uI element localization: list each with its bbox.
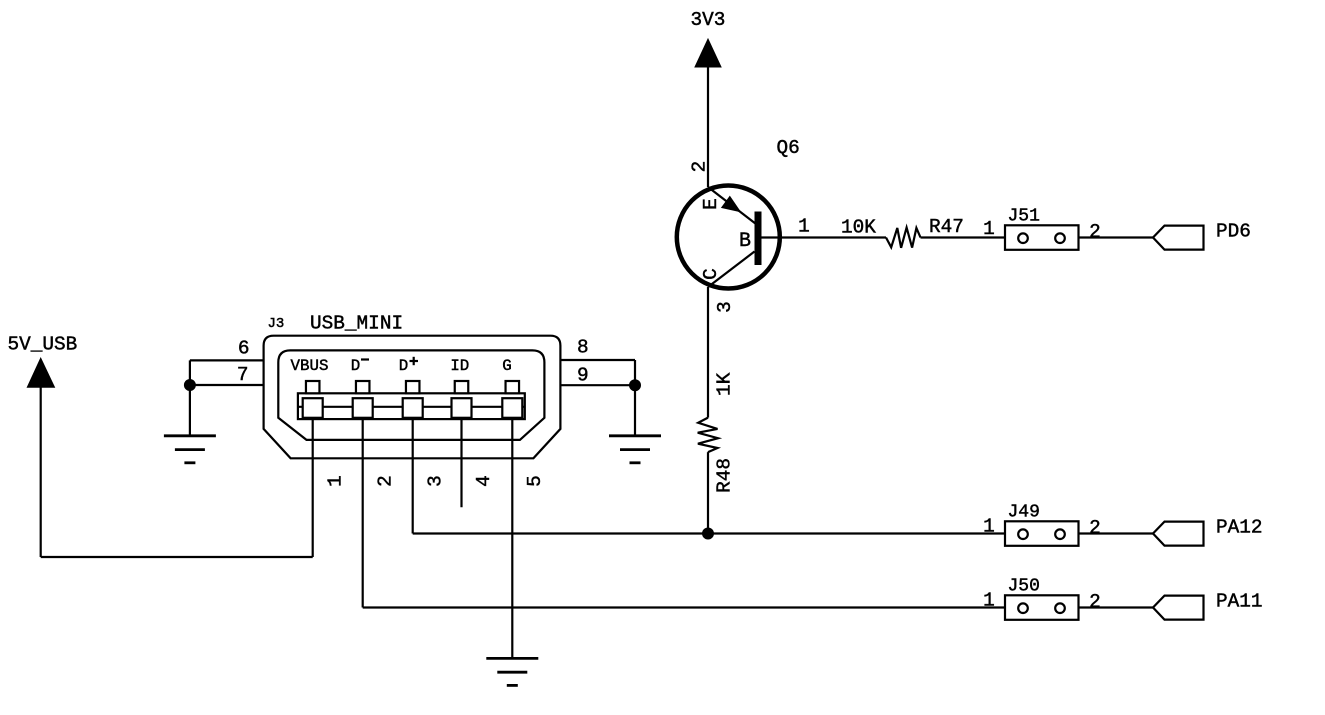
svg-text:5V_USB: 5V_USB [8,334,78,356]
svg-text:G: G [502,357,511,375]
svg-text:2: 2 [1089,591,1101,613]
svg-text:1: 1 [983,590,995,612]
svg-text:J50: J50 [1008,577,1040,597]
svg-text:3V3: 3V3 [691,9,726,31]
svg-text:D: D [351,357,360,375]
svg-text:E: E [700,198,722,210]
svg-text:B: B [739,230,751,253]
svg-text:3: 3 [714,301,736,313]
svg-text:Q6: Q6 [777,137,800,159]
svg-text:D: D [399,357,408,375]
svg-text:1: 1 [798,216,810,238]
svg-text:6: 6 [238,338,250,360]
svg-text:C: C [700,268,722,280]
svg-text:2: 2 [689,161,711,173]
svg-text:1: 1 [983,218,995,240]
svg-text:J51: J51 [1008,207,1040,227]
svg-text:J3: J3 [268,316,285,332]
svg-text:PD6: PD6 [1216,220,1251,242]
svg-text:1: 1 [324,475,346,487]
svg-text:1K: 1K [714,372,736,396]
svg-text:10K: 10K [841,217,876,239]
svg-text:ID: ID [450,357,469,375]
svg-text:VBUS: VBUS [291,357,329,375]
svg-text:R47: R47 [929,216,964,238]
svg-text:R48: R48 [714,458,736,493]
svg-text:USB_MINI: USB_MINI [310,313,403,335]
svg-text:3: 3 [424,475,446,487]
svg-text:8: 8 [577,337,589,359]
svg-text:5: 5 [524,475,546,487]
svg-text:9: 9 [577,365,589,387]
svg-text:PA11: PA11 [1216,591,1263,613]
svg-text:2: 2 [1089,221,1101,243]
svg-text:1: 1 [983,516,995,538]
svg-text:4: 4 [473,475,495,487]
svg-text:PA12: PA12 [1216,517,1263,539]
svg-text:2: 2 [374,475,396,487]
svg-text:2: 2 [1089,517,1101,539]
svg-text:J49: J49 [1008,503,1040,523]
svg-text:7: 7 [237,364,249,386]
